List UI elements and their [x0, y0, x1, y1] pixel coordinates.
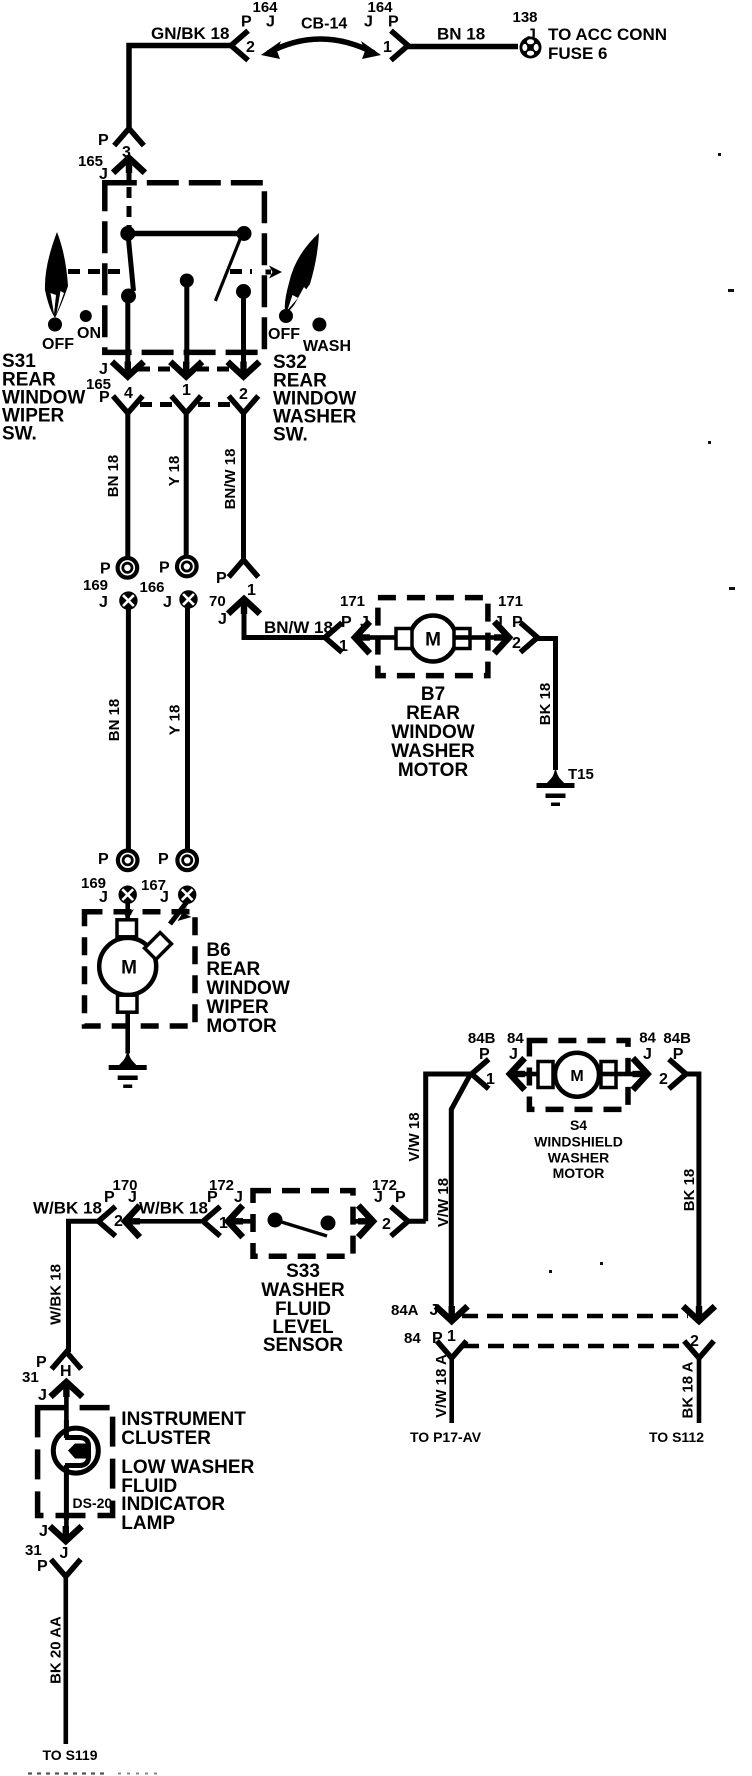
- svg-text:84: 84: [639, 1030, 656, 1047]
- svg-text:P: P: [99, 389, 110, 406]
- svg-text:84: 84: [404, 1330, 421, 1347]
- svg-text:J: J: [39, 1523, 48, 1540]
- svg-text:DS-20: DS-20: [73, 1495, 113, 1511]
- svg-text:2: 2: [239, 386, 248, 403]
- svg-text:SW.: SW.: [2, 424, 37, 445]
- svg-text:84B: 84B: [663, 1030, 691, 1047]
- svg-text:2: 2: [659, 1071, 668, 1088]
- svg-text:WIPER: WIPER: [206, 997, 269, 1018]
- svg-text:P: P: [158, 851, 169, 868]
- svg-text:J: J: [218, 611, 227, 628]
- svg-text:P: P: [207, 1189, 218, 1206]
- svg-text:31: 31: [25, 1542, 42, 1559]
- svg-text:J: J: [160, 889, 169, 906]
- svg-text:W/BK 18: W/BK 18: [139, 1199, 208, 1218]
- svg-text:V/W 18 A: V/W 18 A: [433, 1354, 450, 1418]
- svg-text:S4: S4: [570, 1117, 587, 1133]
- svg-text:J: J: [266, 14, 275, 31]
- svg-text:J: J: [364, 14, 373, 31]
- svg-text:MOTOR: MOTOR: [398, 760, 469, 781]
- svg-text:P: P: [216, 570, 227, 587]
- svg-text:BK 18: BK 18: [681, 1169, 698, 1212]
- svg-text:J: J: [99, 889, 108, 906]
- svg-text:171: 171: [498, 593, 523, 610]
- svg-text:SENSOR: SENSOR: [263, 1335, 344, 1356]
- svg-text:J: J: [163, 594, 172, 611]
- svg-text:J: J: [374, 1189, 383, 1206]
- svg-text:MOTOR: MOTOR: [553, 1165, 605, 1181]
- svg-text:J: J: [234, 1189, 243, 1206]
- svg-text:J: J: [360, 614, 369, 631]
- svg-text:BN/W 18: BN/W 18: [222, 449, 239, 510]
- svg-text:WINDSHIELD: WINDSHIELD: [534, 1134, 623, 1150]
- svg-text:WASHER: WASHER: [391, 741, 475, 762]
- svg-text:M: M: [425, 630, 441, 651]
- svg-text:2: 2: [382, 1216, 391, 1233]
- svg-text:P: P: [512, 614, 523, 631]
- svg-text:B6: B6: [206, 940, 230, 961]
- svg-text:TO S119: TO S119: [43, 1747, 98, 1763]
- svg-text:P: P: [241, 14, 252, 31]
- svg-text:V/W 18: V/W 18: [435, 1178, 452, 1227]
- svg-text:BN/W 18: BN/W 18: [264, 618, 333, 637]
- svg-text:M: M: [570, 1068, 583, 1085]
- svg-text:LAMP: LAMP: [121, 1513, 175, 1534]
- svg-text:BK 18: BK 18: [537, 683, 554, 726]
- svg-text:P: P: [104, 1189, 115, 1206]
- svg-text:OFF: OFF: [268, 326, 300, 343]
- svg-text:LOW WASHER: LOW WASHER: [121, 1457, 254, 1478]
- svg-text:2: 2: [246, 39, 255, 56]
- svg-text:1: 1: [182, 382, 191, 399]
- svg-text:84A: 84A: [391, 1302, 419, 1319]
- svg-text:INDICATOR: INDICATOR: [121, 1494, 225, 1515]
- svg-text:BK 18 A: BK 18 A: [680, 1361, 697, 1418]
- svg-text:J: J: [643, 1046, 652, 1063]
- svg-text:J: J: [60, 1545, 69, 1562]
- svg-text:BN 18: BN 18: [437, 25, 485, 44]
- svg-text:BN 18: BN 18: [105, 455, 122, 498]
- svg-text:OFF: OFF: [42, 336, 74, 353]
- svg-text:84B: 84B: [468, 1030, 496, 1047]
- svg-text:4: 4: [124, 385, 133, 402]
- svg-text:J: J: [99, 594, 108, 611]
- svg-text:REAR: REAR: [206, 959, 260, 980]
- svg-text:J: J: [494, 614, 503, 631]
- svg-text:J: J: [509, 1046, 518, 1063]
- svg-text:M: M: [121, 958, 137, 979]
- svg-text:J: J: [38, 1387, 47, 1404]
- svg-text:B7: B7: [421, 684, 445, 705]
- svg-text:171: 171: [340, 593, 365, 610]
- svg-text:J: J: [128, 1189, 137, 1206]
- svg-text:1: 1: [383, 39, 392, 56]
- svg-text:P: P: [159, 560, 170, 577]
- svg-text:T15: T15: [568, 766, 594, 783]
- svg-text:1: 1: [486, 1071, 495, 1088]
- svg-text:1: 1: [247, 582, 256, 599]
- svg-text:P: P: [388, 14, 399, 31]
- svg-text:P: P: [100, 561, 111, 578]
- svg-text:H: H: [60, 1363, 72, 1380]
- svg-text:FUSE 6: FUSE 6: [548, 44, 608, 63]
- svg-text:WINDOW: WINDOW: [206, 978, 289, 999]
- svg-text:P: P: [98, 851, 109, 868]
- svg-text:P: P: [395, 1189, 406, 1206]
- svg-text:INSTRUMENT: INSTRUMENT: [121, 1409, 246, 1430]
- svg-text:169: 169: [83, 577, 108, 594]
- svg-text:WASH: WASH: [303, 338, 351, 355]
- svg-text:ON: ON: [77, 325, 101, 342]
- svg-text:Y 18: Y 18: [166, 456, 183, 487]
- svg-text:V/W 18: V/W 18: [406, 1112, 423, 1161]
- svg-text:WASHER: WASHER: [261, 1280, 345, 1301]
- svg-text:31: 31: [22, 1369, 39, 1386]
- svg-text:TO ACC CONN: TO ACC CONN: [548, 25, 667, 44]
- svg-text:138: 138: [512, 9, 537, 26]
- svg-text:REAR: REAR: [406, 703, 460, 724]
- svg-text:SW.: SW.: [273, 425, 308, 446]
- svg-text:CB-14: CB-14: [301, 16, 347, 33]
- svg-text:GN/BK 18: GN/BK 18: [151, 24, 229, 43]
- svg-text:P: P: [37, 1558, 48, 1575]
- svg-text:166: 166: [140, 579, 165, 596]
- svg-text:MOTOR: MOTOR: [206, 1016, 277, 1037]
- svg-text:W/BK 18: W/BK 18: [33, 1199, 102, 1218]
- svg-text:1: 1: [447, 1328, 456, 1345]
- svg-text:W/BK 18: W/BK 18: [48, 1264, 65, 1325]
- svg-text:Y 18: Y 18: [167, 705, 184, 736]
- svg-text:BK 20 AA: BK 20 AA: [48, 1616, 65, 1684]
- svg-text:P: P: [341, 614, 352, 631]
- svg-text:1: 1: [339, 638, 348, 655]
- svg-text:WINDOW: WINDOW: [391, 722, 474, 743]
- svg-text:CLUSTER: CLUSTER: [121, 1428, 211, 1449]
- svg-text:TO P17-AV: TO P17-AV: [410, 1429, 482, 1445]
- svg-text:WASHER: WASHER: [548, 1150, 609, 1166]
- svg-text:P: P: [98, 132, 109, 149]
- svg-text:84: 84: [507, 1030, 524, 1047]
- svg-text:BN 18: BN 18: [106, 699, 123, 742]
- svg-text:TO S112: TO S112: [649, 1429, 704, 1445]
- svg-text:S33: S33: [286, 1261, 320, 1282]
- svg-text:70: 70: [209, 593, 226, 610]
